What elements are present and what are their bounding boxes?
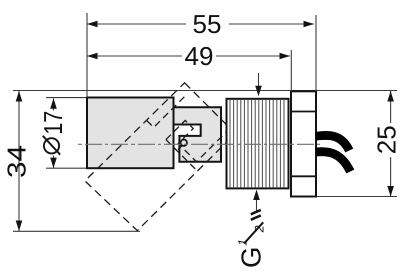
dimension 25 — [390, 91, 392, 197]
svg-text:49: 49 — [185, 41, 214, 71]
centerline — [78, 143, 322, 145]
svg-text:G: G — [236, 247, 267, 268]
dimension 34 — [18, 91, 20, 231]
dimension diameter 17 — [53, 99, 55, 111]
svg-text:34: 34 — [2, 145, 32, 178]
bottom extension line of 25 — [316, 196, 397, 198]
dashed rotated notch chevrons — [166, 120, 226, 161]
bottom extension line of 34 — [13, 230, 140, 232]
top extension line (shared by 34 and 25) — [13, 90, 397, 92]
hex nut side view — [291, 91, 316, 196]
cable upper — [316, 135, 349, 150]
dimension 55 — [87, 13, 316, 98]
thread G1/2 — [227, 99, 289, 189]
svg-text:55: 55 — [193, 9, 222, 39]
housing body — [87, 98, 174, 169]
svg-text:25: 25 — [371, 125, 401, 154]
cable lower — [316, 152, 350, 172]
dashed rotated adapter top edge with body step — [147, 94, 188, 128]
thread top pointer arrow — [258, 73, 260, 88]
dashed swivel envelope (body rotated 45deg) — [85, 83, 235, 231]
adapter with notch — [174, 107, 222, 162]
dashed rotated body right edge — [166, 140, 197, 171]
G 1/2 label with pointer arrow — [256, 199, 258, 213]
svg-text:17: 17 — [38, 111, 68, 135]
rotation pivot marker (rho) — [181, 140, 187, 146]
dimension 49 — [87, 50, 291, 91]
extension lines of diameter 17 — [46, 97, 87, 99]
